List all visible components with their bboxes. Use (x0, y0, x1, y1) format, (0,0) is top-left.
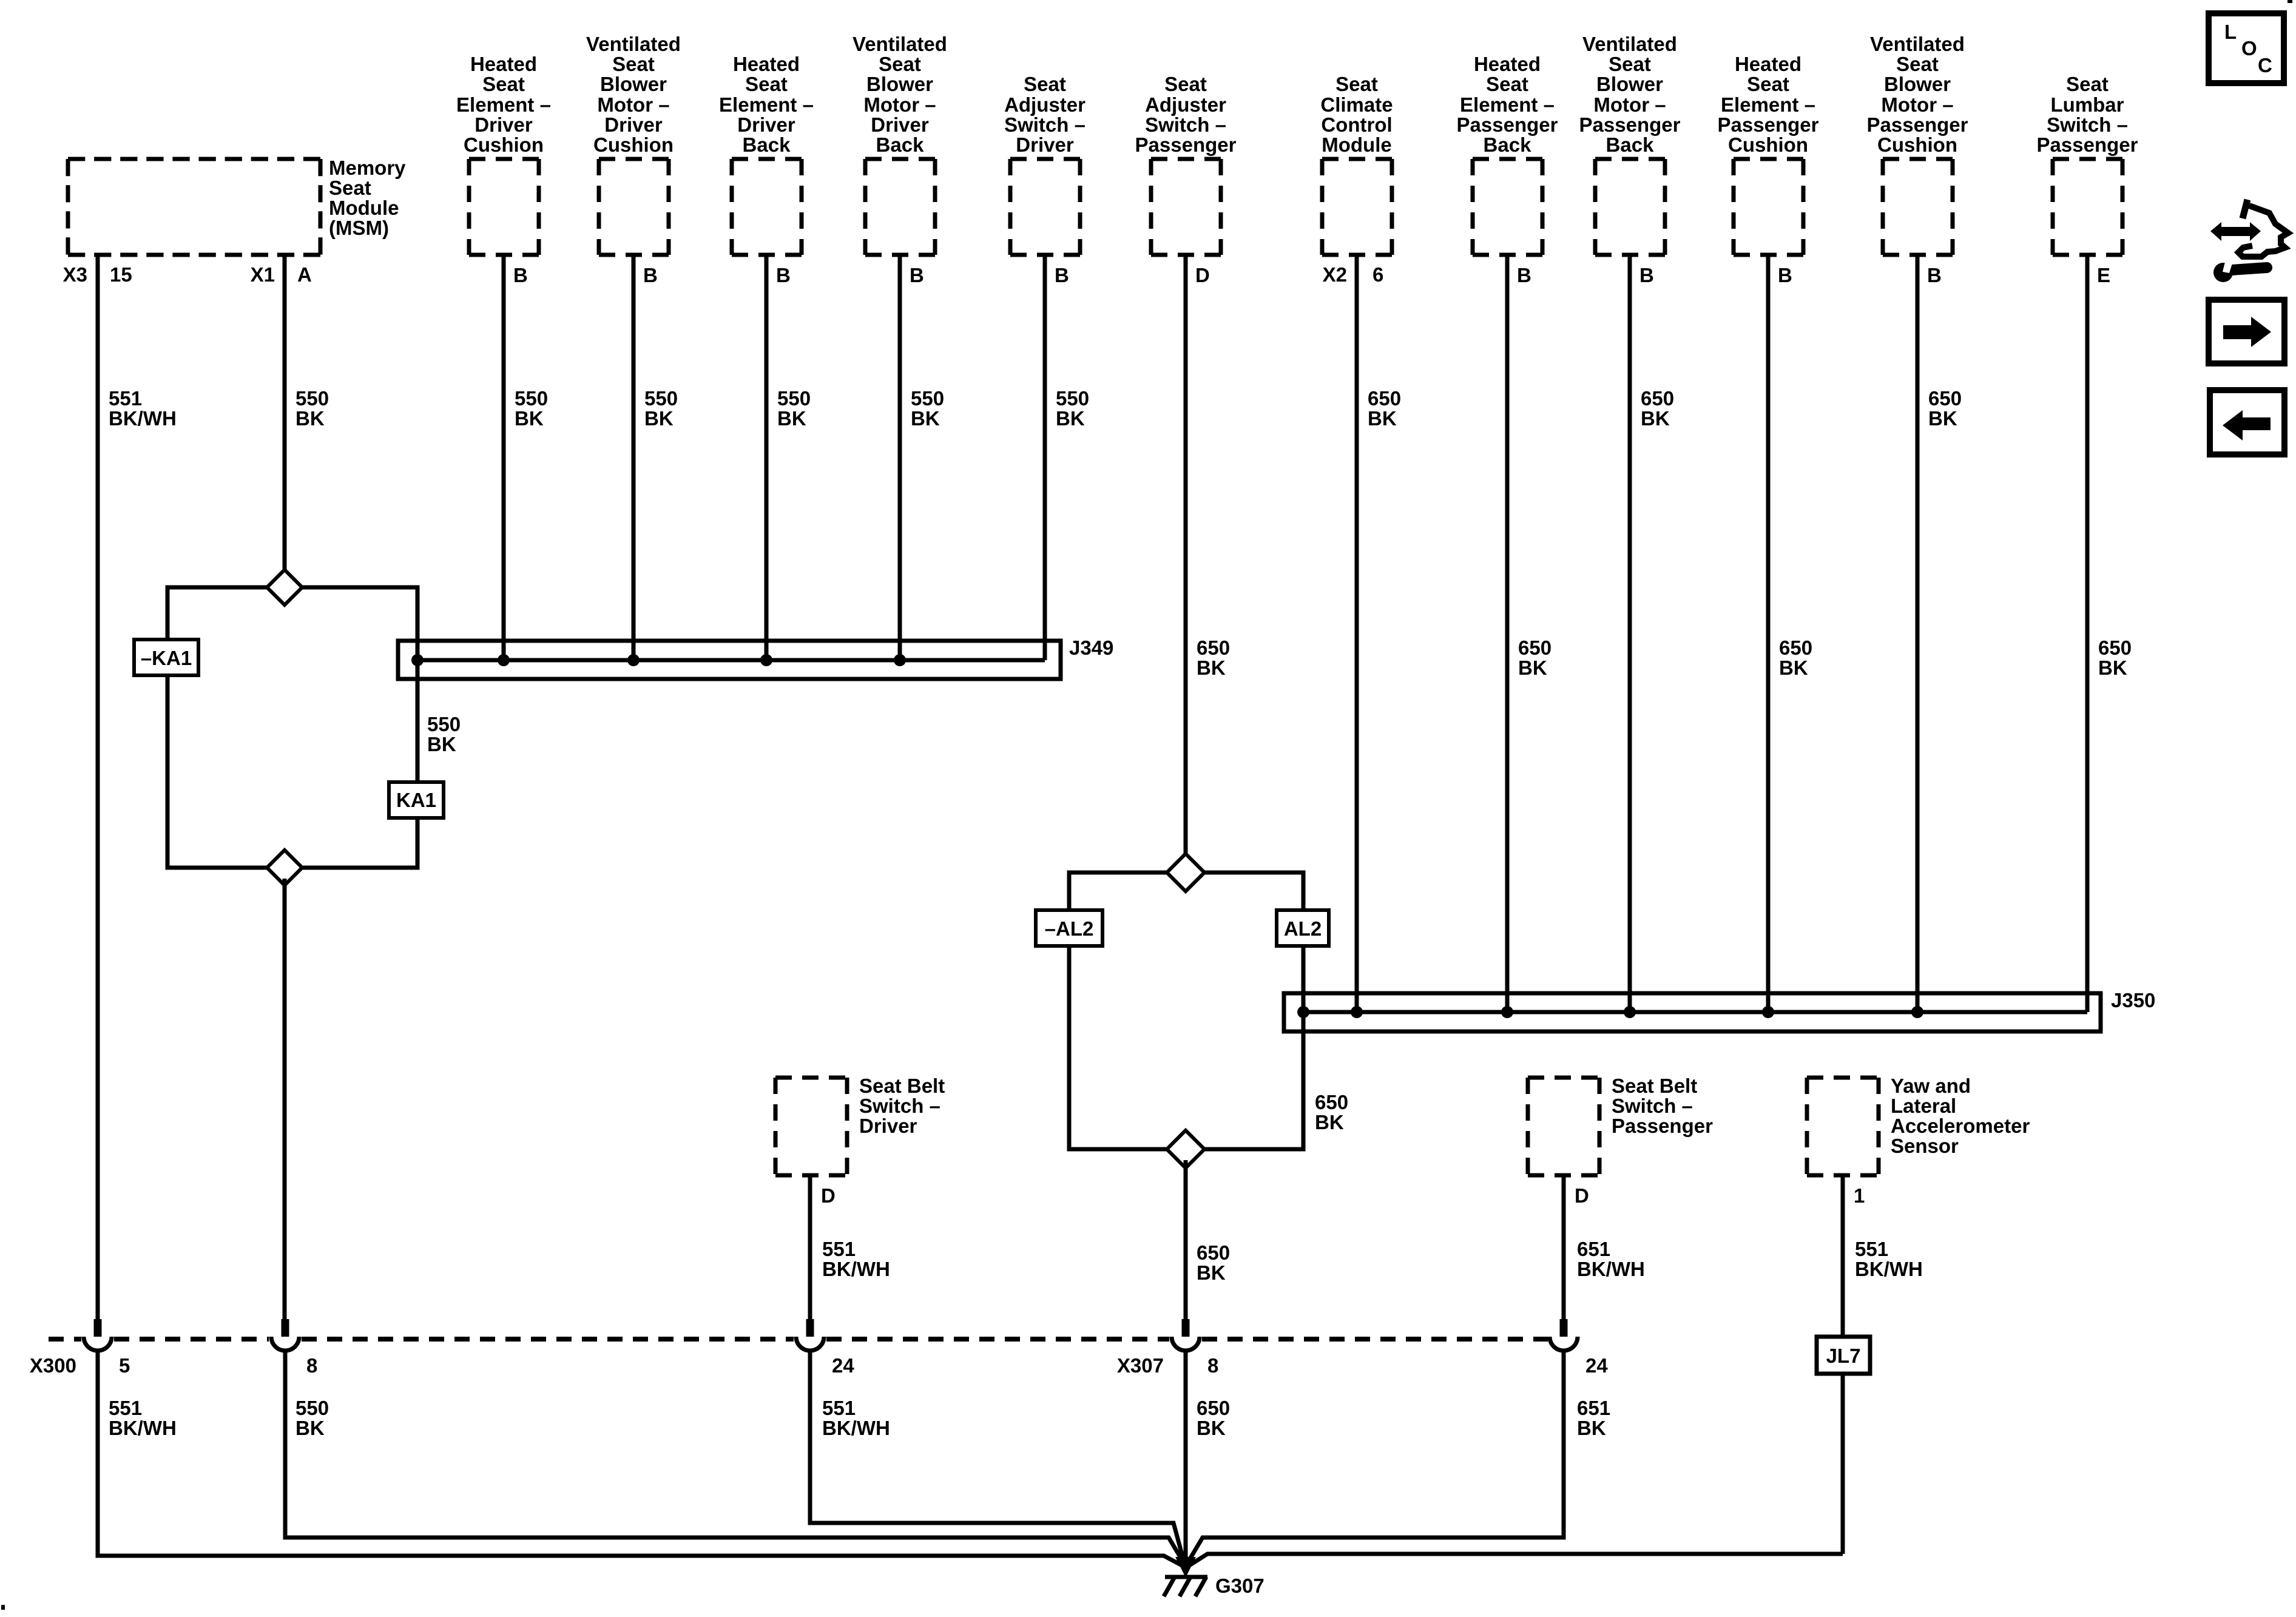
component location icon: double arrow (2210, 222, 2221, 241)
wire 650 BK vent blower passenger cushion (1916, 255, 1920, 1012)
wire 650 BK heated seat passenger back (1505, 255, 1510, 1012)
page corner marks (2288, 0, 2292, 3)
option merge diamond bottom KA1 (267, 850, 302, 885)
forward arrow box (2209, 300, 2284, 363)
wire 550 BK to J349 at x=1722 (1043, 255, 1047, 660)
splice pack J349 (398, 641, 1061, 679)
svg-text:A: A (297, 263, 312, 286)
memory seat module (MSM) box (68, 159, 320, 255)
junction dot (627, 654, 640, 666)
junction dot (1297, 1006, 1309, 1018)
svg-text:B: B (1639, 264, 1654, 286)
heated seat element driver back box (732, 159, 802, 255)
svg-text:1: 1 (1854, 1184, 1865, 1207)
wire 650 BK to G307 (1184, 1352, 1188, 1568)
wire 551 BK/WH yaw sensor (1841, 1175, 1845, 1337)
svg-text:X1: X1 (251, 263, 275, 286)
wire 551 BK/WH from MSM X3-15 (96, 255, 100, 1320)
ventilated seat blower motor passenger cushion box (1883, 159, 1953, 255)
seat belt switch passenger box (1528, 1078, 1599, 1175)
component location icon: panel outline (2243, 200, 2247, 218)
connector pin X300-24 (806, 1319, 814, 1337)
junction dot (894, 654, 906, 666)
inline connector JL7 (1817, 1337, 1870, 1374)
heated seat element passenger cushion box (1734, 159, 1803, 255)
connector pin X300-5 (94, 1319, 102, 1337)
option split diamond top KA1 (267, 570, 302, 605)
ventilated seat blower motor driver back box (865, 159, 935, 255)
svg-text:J349: J349 (1069, 636, 1113, 659)
backward arrow box (2210, 390, 2284, 454)
svg-text:6: 6 (1373, 263, 1383, 286)
svg-text:G307: G307 (1215, 1575, 1264, 1597)
wire 551 BK/WH to G307 (98, 1352, 1182, 1565)
svg-text:JL7: JL7 (1826, 1345, 1861, 1367)
seat adjuster switch passenger box (1151, 159, 1221, 255)
ventilated seat blower motor passenger back box (1595, 159, 1665, 255)
svg-text:650BK: 650BK (1197, 636, 1230, 679)
svg-text:550BK: 550BK (644, 387, 678, 430)
svg-text:550BK: 550BK (1056, 387, 1089, 430)
option box KA1 (389, 782, 444, 818)
wire AL2 loop right branch (1195, 873, 1303, 910)
svg-text:650BK: 650BK (1368, 387, 1401, 430)
heated seat element passenger back box (1473, 159, 1542, 255)
svg-text:E: E (2097, 264, 2110, 286)
svg-text:AL2: AL2 (1284, 917, 1322, 940)
svg-text:650BK: 650BK (1315, 1091, 1348, 1133)
option box -AL2 (1036, 910, 1102, 946)
svg-text:650BK: 650BK (1197, 1397, 1230, 1439)
svg-text:24: 24 (832, 1354, 854, 1377)
wire 550 BK to J349 at x=1044 (632, 255, 636, 660)
svg-text:5: 5 (119, 1354, 130, 1377)
ventilated seat blower motor driver cushion box (599, 159, 669, 255)
svg-text:B: B (776, 264, 791, 286)
svg-text:B: B (643, 264, 658, 286)
option split diamond top AL2 (1167, 854, 1204, 891)
svg-text:VentilatedSeatBlowerMotor –Dri: VentilatedSeatBlowerMotor –DriverCushion (586, 33, 681, 156)
LOC locator box (2209, 13, 2284, 83)
svg-text:15: 15 (110, 263, 132, 286)
wire KA1 loop left branch (167, 587, 276, 640)
connector pin X307-24 (1560, 1319, 1568, 1337)
junction dot (1911, 1006, 1923, 1018)
svg-text:550BK: 550BK (515, 387, 548, 430)
wire 550 BK to J349 at x=1263 (765, 255, 769, 660)
wire KA1 loop right branch (293, 587, 417, 782)
wire 650 BK to X307 pin 8 (1184, 1160, 1188, 1320)
svg-text:L: L (2224, 21, 2237, 43)
svg-text:X300: X300 (30, 1354, 76, 1377)
connector dashed line X300/X307 (49, 1337, 81, 1342)
wire 650 BK vent blower passenger back (1628, 255, 1632, 1012)
svg-text:550BK: 550BK (911, 387, 944, 430)
svg-text:B: B (1778, 264, 1792, 286)
splice pack J350 (1284, 993, 2101, 1031)
svg-text:B: B (1517, 264, 1531, 286)
wire KA1 loop right branch lower (293, 818, 417, 868)
svg-text:VentilatedSeatBlowerMotor –Pas: VentilatedSeatBlowerMotor –PassengerCush… (1867, 33, 1968, 156)
junction dot (1501, 1006, 1513, 1018)
svg-text:D: D (1195, 264, 1210, 286)
connector pin X300-8 (282, 1319, 289, 1337)
svg-text:650BK: 650BK (2098, 636, 2132, 679)
wire 650 BK seat climate control module (1355, 255, 1359, 1012)
svg-text:550BK: 550BK (427, 713, 461, 755)
svg-text:650BK: 650BK (1197, 1241, 1230, 1284)
junction dot (1624, 1006, 1636, 1018)
svg-text:650BK: 650BK (1641, 387, 1674, 430)
wire 551 BK/WH below JL7 (1841, 1374, 1845, 1554)
wire 651 BK seat belt passenger to G307 (1187, 1352, 1564, 1563)
wire 551 BK/WH seat belt driver (808, 1175, 812, 1320)
wire 650 BK seat lumbar switch (2085, 255, 2090, 1012)
svg-text:D: D (821, 1184, 836, 1207)
svg-text:550BK: 550BK (295, 387, 329, 430)
svg-text:8: 8 (306, 1354, 317, 1377)
wire AL2 loop left branch (1069, 873, 1176, 910)
yaw and lateral accelerometer sensor box (1807, 1078, 1879, 1175)
svg-text:650BK: 650BK (1928, 387, 1962, 430)
heated seat element driver cushion box (469, 159, 539, 255)
svg-text:C: C (2258, 54, 2272, 76)
svg-text:651BK: 651BK (1577, 1397, 1610, 1439)
seat belt switch driver box (775, 1078, 847, 1175)
svg-text:8: 8 (1207, 1354, 1218, 1377)
svg-text:KA1: KA1 (396, 789, 436, 811)
wire 550 BK to X300 pin 8 (283, 879, 287, 1320)
wire AL2 loop right branch lower (1195, 946, 1303, 1149)
wire KA1 loop left branch lower (167, 675, 276, 868)
svg-text:X2: X2 (1323, 263, 1347, 286)
svg-text:D: D (1575, 1184, 1589, 1207)
svg-text:HeatedSeatElement –DriverCushi: HeatedSeatElement –DriverCushion (456, 53, 551, 156)
wire 550 BK from MSM X1-A (283, 255, 287, 576)
seat lumbar switch passenger box (2053, 159, 2122, 255)
option merge diamond bottom AL2 (1167, 1130, 1204, 1168)
svg-text:X3: X3 (63, 263, 87, 286)
wire 550 BK to J349 at x=1483 (898, 255, 902, 660)
svg-text:550BK: 550BK (777, 387, 811, 430)
ground G307 (1175, 1557, 1196, 1578)
svg-text:B: B (513, 264, 528, 286)
seat adjuster switch driver box (1010, 159, 1080, 255)
wire 650 BK heated seat passenger cushion (1766, 255, 1771, 1012)
wire 551 BK/WH seat belt driver to G307 (810, 1352, 1184, 1561)
svg-text:B: B (1927, 264, 1942, 286)
junction dot (1762, 1006, 1774, 1018)
svg-text:B: B (910, 264, 924, 286)
junction dot (1351, 1006, 1363, 1018)
wire 650 BK seat adjuster switch passenger (1184, 255, 1188, 862)
wire AL2 loop left branch lower (1069, 946, 1176, 1149)
seat climate control module box (1322, 159, 1392, 255)
junction dot (760, 654, 772, 666)
connector pin X307-8 (1182, 1319, 1190, 1337)
svg-text:24: 24 (1585, 1354, 1608, 1377)
option box AL2 (1277, 910, 1329, 946)
wire 550 BK to J349 at x=830 (502, 255, 506, 660)
wire 551 BK/WH yaw sensor to G307 (1189, 1554, 1843, 1565)
option box -KA1 (134, 640, 198, 675)
svg-text:X307: X307 (1117, 1354, 1164, 1377)
svg-text:–AL2: –AL2 (1045, 917, 1094, 940)
component location icon: wrench (2213, 263, 2233, 282)
junction dot (498, 654, 510, 666)
wire 550 BK to G307 (285, 1352, 1184, 1563)
svg-text:J350: J350 (2111, 989, 2155, 1011)
junction dot (411, 654, 424, 666)
svg-text:B: B (1055, 264, 1069, 286)
wire 651 BK/WH seat belt passenger (1562, 1175, 1566, 1320)
svg-text:650BK: 650BK (1779, 636, 1812, 679)
svg-text:–KA1: –KA1 (141, 647, 192, 669)
svg-text:650BK: 650BK (1518, 636, 1551, 679)
svg-text:550BK: 550BK (295, 1397, 329, 1439)
svg-text:O: O (2241, 37, 2257, 59)
